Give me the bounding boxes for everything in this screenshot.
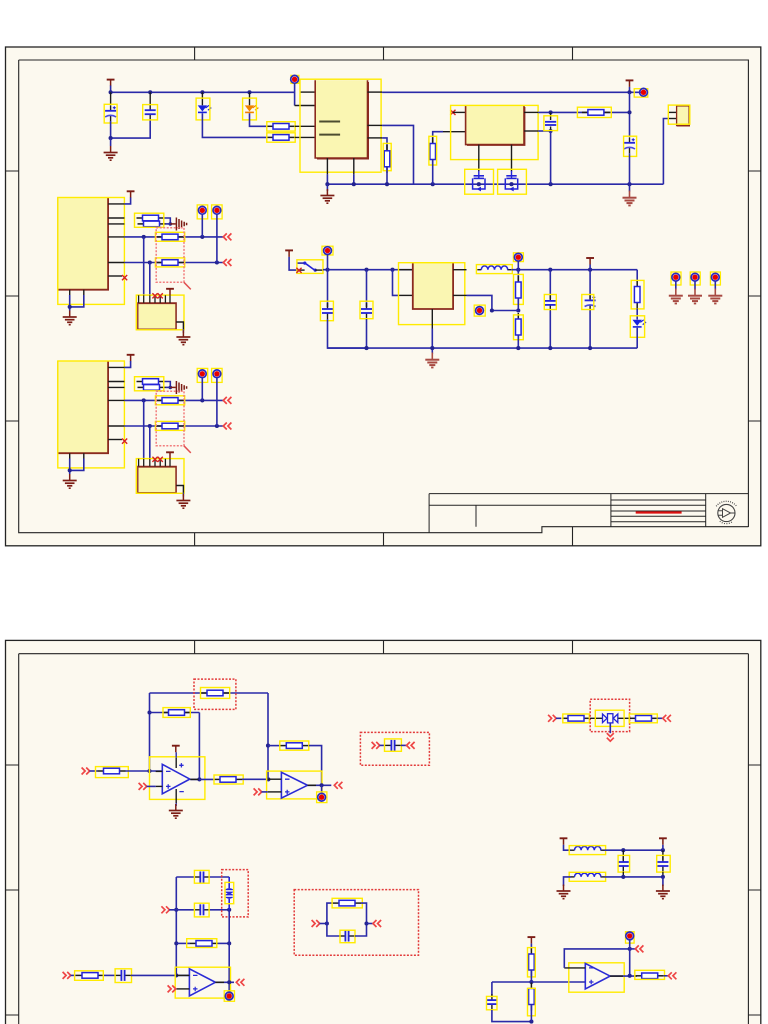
resistor R7 xyxy=(138,221,166,227)
port chevron out xyxy=(663,715,671,722)
feedback wire to U4 xyxy=(467,295,519,310)
title block red revision line xyxy=(636,511,682,513)
capacitor C20 xyxy=(385,740,401,751)
main wire to U4 xyxy=(323,269,413,271)
U1 selection box xyxy=(300,79,381,172)
wire R1 to U1 pin3 xyxy=(295,125,315,127)
capacitor C5 xyxy=(327,270,329,307)
wire + input xyxy=(492,981,585,983)
power port VCC T-bar xyxy=(107,80,115,87)
capacitor C26 xyxy=(339,931,355,942)
capacitor C3 xyxy=(550,112,552,120)
connector J2 body xyxy=(138,303,176,329)
port chevron in xyxy=(63,972,71,979)
pin U3.2 xyxy=(108,217,124,219)
wire to R20 xyxy=(90,770,98,772)
switch S1 xyxy=(297,262,305,264)
resistor R20 xyxy=(98,768,126,774)
power port T-bar xyxy=(626,80,634,87)
transistor Q2 xyxy=(505,171,517,191)
port chevron out xyxy=(668,972,676,979)
wire vertical at 629 xyxy=(629,92,631,136)
ground under U4 xyxy=(431,348,433,354)
power dot port A2 xyxy=(321,785,323,793)
lower fb wire xyxy=(150,712,200,714)
power dot port in xyxy=(322,246,333,255)
power dot port A3 xyxy=(224,991,234,1002)
power port dot on bus xyxy=(634,89,648,97)
led D3 xyxy=(636,309,638,320)
IC U3 body xyxy=(58,198,108,290)
resistor R2 xyxy=(267,135,295,141)
wire U2.8 to C3/R5 xyxy=(538,111,629,113)
op-amp A2 xyxy=(267,771,322,799)
L3 left to ground xyxy=(564,877,571,886)
resistor R21 in dashed box xyxy=(201,690,229,696)
sheet 2 paper xyxy=(6,640,761,1024)
wire C1 to gnd node xyxy=(110,121,112,138)
selection box around R6 R7 xyxy=(135,213,164,227)
wire5 xyxy=(124,262,224,264)
red dashed box xyxy=(156,228,184,283)
ground xyxy=(110,138,112,146)
resistor R12 led chain xyxy=(636,270,638,282)
wire T-bar to bus xyxy=(110,86,112,93)
power T-bar left xyxy=(560,838,568,845)
wire to U4 pin2 xyxy=(393,270,399,296)
wire led to bus xyxy=(636,328,638,348)
inductor L2 xyxy=(571,846,605,850)
J2 top pins xyxy=(139,295,166,303)
pin U1.8 top right xyxy=(368,91,383,93)
capacitor C6 xyxy=(366,270,368,307)
A2 output xyxy=(308,784,332,786)
feedback vertical left xyxy=(149,693,151,771)
red dashed box cap xyxy=(360,732,429,765)
capacitor C22 xyxy=(662,850,664,860)
A4 output xyxy=(610,975,637,977)
port chevron out xyxy=(236,979,244,986)
wire dot to pin2 xyxy=(294,83,296,105)
power T-bar A1 xyxy=(172,746,180,753)
U3 selection box xyxy=(58,198,125,305)
pin U3.1 + wire to T-bar xyxy=(108,203,124,205)
parallel RC loop xyxy=(327,903,333,923)
ground A1 xyxy=(169,804,183,818)
transistor Q1 xyxy=(473,171,485,191)
power port T-bar xyxy=(127,191,135,198)
power dot port fb xyxy=(474,305,485,316)
vertical V2 wire5 to J pins xyxy=(149,263,151,296)
no-erc marker xyxy=(450,110,455,115)
resistor R24 fb A2 xyxy=(268,745,280,747)
U3 bottom pins xyxy=(69,290,71,295)
resistor R31 xyxy=(529,983,535,1011)
pin U2.8 xyxy=(524,111,538,113)
resistor R3 xyxy=(384,145,390,173)
wire L2 to right xyxy=(605,849,663,851)
port chevron xyxy=(372,742,380,749)
wire top bus xyxy=(111,91,295,93)
pin U1.1 xyxy=(300,91,315,93)
wire to antenna symbol xyxy=(166,223,171,225)
wire U1.6 down to gnd bus xyxy=(382,125,413,184)
wire C3 to gnd bus xyxy=(550,131,552,184)
filter element FL1 xyxy=(590,710,629,733)
ground under U1 xyxy=(326,184,328,191)
wire R20 to opamp xyxy=(126,770,162,772)
mid fb branch chevron xyxy=(161,906,169,913)
wire4 xyxy=(124,236,224,238)
sheet 1 border ticks xyxy=(6,47,761,546)
capacitor C21 xyxy=(622,850,624,860)
top fb branch cap C24 xyxy=(176,876,194,878)
U4 bottom pin xyxy=(431,309,433,329)
spark gap in dashed box xyxy=(222,870,249,917)
pin U1.2 xyxy=(295,105,316,107)
fb vertical right xyxy=(267,693,269,779)
wire D2 to R row xyxy=(250,113,268,126)
sheet 1 paper xyxy=(6,47,761,546)
capacitor C1 electrolytic xyxy=(110,92,112,105)
resistor R30 xyxy=(529,948,535,976)
no-erc marks on J2 pins xyxy=(152,293,157,298)
fb loop A4 xyxy=(564,949,629,968)
connector J1 body xyxy=(677,106,690,126)
wire to C23 xyxy=(104,974,115,976)
wire long top bus to right xyxy=(382,91,643,93)
resistor R8 on wire4 xyxy=(156,234,184,240)
red dashed box filter xyxy=(590,699,629,731)
connector J1 selection box xyxy=(668,105,690,124)
diode D2 orange LED xyxy=(249,92,251,105)
op-amp A3 xyxy=(175,967,230,998)
bottom bus buck xyxy=(328,347,638,349)
power T-bar out xyxy=(586,258,594,265)
resistor R25 xyxy=(562,716,590,722)
wire L1 to output xyxy=(511,269,637,271)
power dot port out xyxy=(513,253,523,262)
antenna earth sideways xyxy=(176,218,186,231)
capacitor C2 xyxy=(149,92,151,104)
U1 internal plates xyxy=(319,121,340,123)
capacitor C4 electrolytic xyxy=(624,137,635,153)
port chevron in xyxy=(312,920,320,927)
port chevron out xyxy=(373,920,381,927)
power T-bar A4 xyxy=(528,937,536,944)
capacitor C7 xyxy=(549,270,551,299)
resistor R26 xyxy=(630,716,658,722)
pin U2.2 xyxy=(443,131,466,133)
pin U3.3 xyxy=(108,223,124,225)
pin U1.6 xyxy=(368,124,383,126)
pin U3.4 xyxy=(108,236,124,238)
resistor R23 series xyxy=(214,777,242,783)
port chevron in2 xyxy=(139,783,147,790)
red dashed box fb xyxy=(194,679,236,709)
wire R3 to gnd bus xyxy=(386,167,388,185)
vertical V1 wire4 to J pins xyxy=(143,237,145,295)
U1 bottom pins xyxy=(326,158,328,174)
sheet 2 border ticks xyxy=(6,640,761,1015)
feedback divider R10 xyxy=(517,270,519,282)
resistor R22 xyxy=(163,710,191,716)
port chevron fb xyxy=(630,948,635,950)
resistor R27 xyxy=(76,973,104,979)
pin U3.5 xyxy=(108,262,124,264)
wire D1 to R row xyxy=(202,113,267,137)
diode D1 blue LED xyxy=(201,92,203,105)
resistor R29 xyxy=(333,900,361,906)
J2 T-bar power xyxy=(166,289,174,296)
inductor L3 xyxy=(571,873,605,877)
U2 body xyxy=(466,106,524,145)
port chevron out wire4 xyxy=(223,233,231,240)
company logo xyxy=(716,501,736,523)
wire gnd bus up to J1 pin2 xyxy=(663,119,668,185)
U2 selection box xyxy=(451,105,538,159)
U2 bottom pins xyxy=(478,145,480,172)
resistor R6 xyxy=(137,215,165,221)
node bus junctions xyxy=(109,90,113,94)
capacitor C27 xyxy=(491,982,493,997)
op-amp A1 xyxy=(150,752,205,806)
port chevron in3 xyxy=(254,788,262,795)
ground under U3 xyxy=(63,311,77,325)
pin U1.5 xyxy=(368,137,383,139)
power dot port A4 xyxy=(626,932,635,943)
title block xyxy=(429,494,748,533)
power port T-bar in xyxy=(285,250,293,257)
power dot port A xyxy=(197,205,208,219)
J2 right pin to ground xyxy=(176,322,183,329)
power flag gnd trio xyxy=(669,272,683,304)
wire U1.5 to R3 xyxy=(382,138,387,151)
op-amp A4 xyxy=(564,963,624,992)
resistor R5 horizontal xyxy=(582,110,610,116)
fb vertical right xyxy=(228,910,230,993)
resistor R9 on wire5 xyxy=(156,260,184,266)
port chevron in1 xyxy=(82,768,90,775)
fb vertical mid xyxy=(198,713,200,780)
J2 selection box xyxy=(136,295,184,330)
upper fb wire xyxy=(150,692,269,694)
port chevron + in xyxy=(168,985,176,992)
capacitor C8 electrolytic xyxy=(589,270,591,299)
A1 output wire xyxy=(190,778,214,780)
wire R2 to U1 pin4 xyxy=(295,136,315,138)
red diagonal mark xyxy=(184,282,191,289)
wire T-bar to switch xyxy=(289,257,297,270)
port chevron out1 xyxy=(334,782,342,789)
pin U3.6 with no-erc xyxy=(108,275,122,277)
U4 pins left xyxy=(399,269,413,271)
right branch to ground xyxy=(662,877,664,886)
wire R6 right joins R7 xyxy=(165,218,171,224)
port chevron in xyxy=(548,715,556,722)
gnd bus wire xyxy=(327,183,663,185)
ground right xyxy=(629,184,631,191)
fb vertical left xyxy=(175,877,177,975)
power dot port B xyxy=(212,205,223,219)
connector J1 pins xyxy=(669,111,677,113)
resistor R1 xyxy=(267,124,295,130)
wire U2.7 to C3 bottom xyxy=(538,130,551,132)
bottom wire xyxy=(605,876,663,878)
A3 output xyxy=(215,981,234,983)
resistor R11 xyxy=(516,313,522,341)
U4 selection box xyxy=(399,263,465,325)
sheet 1 inner frame xyxy=(19,60,749,533)
U4 right pins xyxy=(453,269,466,271)
port chevron xyxy=(407,742,415,749)
left MCU block B (copy) xyxy=(58,355,232,508)
port chevron down xyxy=(607,733,614,741)
pin U2.7 xyxy=(524,130,538,132)
sheet 2 inner frame xyxy=(19,654,749,1024)
resistor R32 xyxy=(636,973,664,979)
op U1 body xyxy=(315,80,367,158)
wire C23 to A3 xyxy=(131,974,189,976)
power T-bar right xyxy=(659,838,667,845)
capacitor C23 series xyxy=(115,970,131,981)
inductor L1 xyxy=(477,266,511,270)
power port VCC dot xyxy=(291,75,299,83)
U4 body xyxy=(413,263,453,309)
wire R23 to A2 xyxy=(242,778,268,780)
pin U2.1 xyxy=(453,111,466,113)
resistor R4 vertical xyxy=(433,132,443,144)
cap C25 xyxy=(194,904,210,915)
fb resistor branch R28 xyxy=(176,942,190,944)
wire bottom link xyxy=(111,120,151,138)
port chevron out wire5 xyxy=(223,259,231,266)
